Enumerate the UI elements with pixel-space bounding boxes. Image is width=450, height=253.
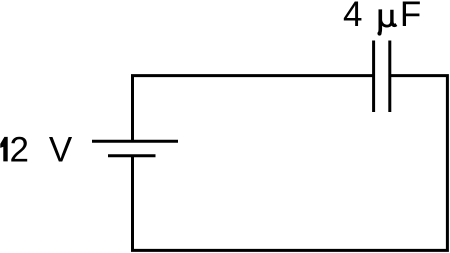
wire: battery positive up left side and top wire to capacitor left plate [133,76,374,142]
wire: capacitor right plate to top-right corner, down right side, bottom wire, up to battery negative [133,76,448,251]
battery B1 negative plate (short line) [108,154,156,157]
svg-text:4: 4 [343,0,362,34]
battery B1 positive plate (long line) [92,140,178,143]
svg-text:V: V [49,130,73,169]
capacitor C1 left plate [372,41,375,113]
capacitor C1 right plate [388,41,391,113]
label digit 1 of "12 V" (drawn, Arial-style without foot serif) [0,137,7,162]
label mu of "4 uF" (drawn, Symbol-font style) [377,9,396,35]
svg-text:2: 2 [9,130,28,169]
svg-text:F: F [400,0,421,34]
